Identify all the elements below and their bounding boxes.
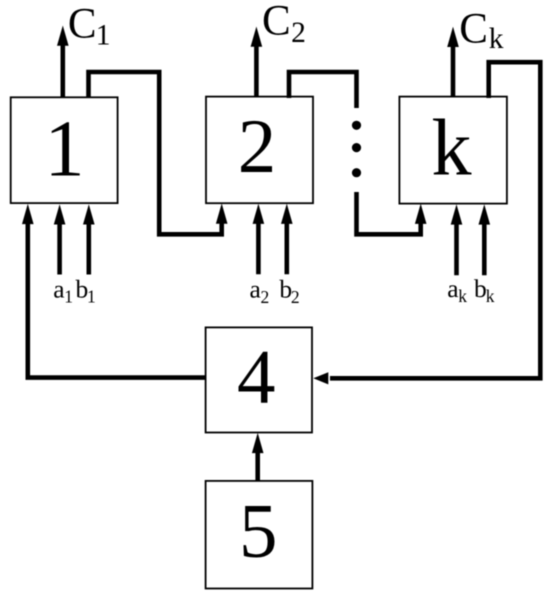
- wire block5 top to block4 bottom: [252, 433, 264, 481]
- wire block4 left to block1 bottom: [22, 204, 206, 378]
- label Ck: [459, 5, 504, 54]
- svg-text:k: k: [458, 286, 467, 306]
- input arrow ak: [451, 204, 463, 275]
- label C2: [262, 0, 306, 49]
- svg-text:4: 4: [237, 334, 276, 420]
- wire block2 top to block k bottom (with ellipsis gap): [289, 72, 427, 234]
- svg-text:k: k: [489, 23, 504, 55]
- wire block k top to right edge down into block 4: [313, 62, 540, 384]
- label bk: [474, 274, 495, 306]
- input arrow a2: [253, 204, 265, 275]
- svg-text:C: C: [68, 0, 97, 47]
- label b1: [76, 274, 96, 306]
- label C1: [68, 0, 111, 51]
- svg-text:a: a: [447, 274, 458, 303]
- block 2: [206, 97, 313, 204]
- svg-text:2: 2: [238, 103, 277, 189]
- svg-text:2: 2: [261, 287, 270, 307]
- input arrow a1: [54, 204, 66, 274]
- ellipsis dot 3: [352, 168, 361, 177]
- label b2: [279, 274, 299, 307]
- svg-text:1: 1: [87, 287, 96, 307]
- block 4: [206, 327, 312, 432]
- output arrow C2: [251, 27, 263, 97]
- input arrow b2: [281, 204, 293, 275]
- svg-text:1: 1: [64, 287, 73, 307]
- label a2: [250, 274, 270, 307]
- svg-text:5: 5: [239, 488, 278, 574]
- ellipsis dot 1: [352, 121, 361, 130]
- svg-text:a: a: [250, 274, 261, 303]
- block 1: [11, 97, 118, 203]
- svg-text:k: k: [486, 286, 495, 306]
- block 5: [206, 481, 313, 589]
- output arrow Ck: [447, 27, 459, 97]
- svg-text:2: 2: [291, 17, 306, 49]
- input arrow bk: [479, 204, 491, 275]
- svg-text:C: C: [459, 5, 488, 52]
- input arrow b1: [83, 204, 95, 274]
- ellipsis dot 2: [352, 143, 361, 152]
- svg-text:k: k: [432, 105, 472, 193]
- wire block1 top to block2 bottom: [89, 72, 228, 234]
- svg-text:2: 2: [291, 287, 300, 307]
- label a1: [53, 274, 73, 306]
- block k: [399, 97, 507, 204]
- output arrow C1: [57, 26, 69, 98]
- svg-text:a: a: [53, 274, 64, 303]
- svg-text:1: 1: [45, 106, 85, 194]
- label ak: [447, 274, 467, 306]
- svg-text:1: 1: [96, 20, 111, 52]
- svg-text:C: C: [262, 0, 291, 45]
